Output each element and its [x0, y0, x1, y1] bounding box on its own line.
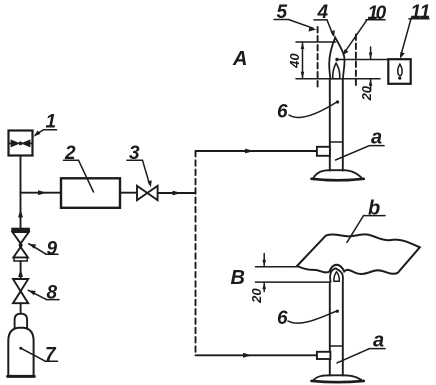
label a (lower) with leader — [337, 330, 385, 363]
burner B flame (outer) — [330, 268, 343, 282]
valve V3 (bowtie) — [137, 186, 158, 200]
governor box 2 — [61, 178, 120, 208]
svg-text:20: 20 — [359, 85, 374, 101]
label 1 with leader — [34, 112, 57, 137]
specimen sheet b (wavy plate) — [297, 234, 420, 274]
dashed gauge line 5 (left) — [317, 27, 319, 90]
wire tee down to valve 9 with up flow arrow — [18, 193, 23, 229]
dimension 20 (lower, flame to specimen) — [249, 254, 330, 304]
wire valve 3 to riser with flow arrow — [158, 191, 196, 196]
node 10 dot in flame — [335, 58, 338, 61]
igniter box 11 — [388, 59, 410, 84]
dimension 20 (upper) — [359, 47, 374, 101]
wire bottom feed to burner B with flow arrow — [196, 353, 318, 358]
label 8 with leader — [28, 283, 59, 304]
label b with leader — [347, 198, 385, 243]
svg-text:A: A — [232, 48, 247, 70]
valve 8 (cylinder valve bowtie) — [13, 279, 28, 303]
wire tee to regulator box 2 with flow arrow — [21, 190, 62, 195]
dashed riser between burners — [195, 151, 197, 355]
label a (upper) with leader — [336, 127, 385, 161]
valve 9 (pressure reducing valve) — [12, 228, 30, 261]
svg-text:6: 6 — [277, 308, 288, 329]
wire valve 9 to valve 8 with up flow arrow — [18, 261, 23, 279]
svg-text:11: 11 — [411, 2, 431, 23]
label 11 with leader — [400, 2, 430, 59]
wire from meter down to tee — [20, 156, 22, 193]
label 6 (lower) with curved leader — [277, 308, 339, 329]
svg-text:9: 9 — [47, 239, 58, 260]
burner A tube 6 — [330, 79, 343, 171]
label 9 with leader — [29, 239, 58, 260]
label 3 with leader — [127, 143, 152, 187]
burner B air inlet a — [317, 352, 331, 359]
svg-text:B: B — [231, 267, 245, 289]
burner B foot — [312, 375, 364, 382]
svg-text:6: 6 — [277, 102, 288, 123]
dashed gauge line (right) — [355, 35, 357, 89]
label 7 with leader — [19, 345, 57, 366]
label 10 with leader — [342, 3, 386, 56]
svg-text:20: 20 — [249, 288, 264, 304]
svg-text:40: 40 — [287, 53, 302, 69]
wire from node 10 to igniter 11 — [339, 59, 389, 61]
burner B inner flame cone — [334, 272, 339, 281]
svg-text:7: 7 — [45, 345, 57, 366]
gas cylinder 7 — [8, 314, 35, 377]
label 6 (upper) with curved leader — [277, 100, 339, 122]
burner A inner flame cone — [333, 63, 340, 79]
wire box2 to valve 3 — [120, 192, 137, 194]
burner A flame 4 (outer) — [329, 38, 344, 80]
burner A foot — [312, 170, 364, 180]
label 5 with leader — [274, 2, 317, 32]
wire valve 8 to cylinder neck — [20, 303, 22, 314]
burner A air inlet a — [317, 147, 330, 156]
label 4 with leader — [314, 2, 335, 37]
wire top feed to burner A with flow arrow — [196, 149, 318, 154]
dimension 40 (flame height) — [287, 42, 380, 79]
burner B tube 6 — [330, 282, 343, 375]
flow meter U1 (box with bowtie symbol) — [9, 131, 33, 156]
label 2 with leader — [64, 143, 94, 192]
